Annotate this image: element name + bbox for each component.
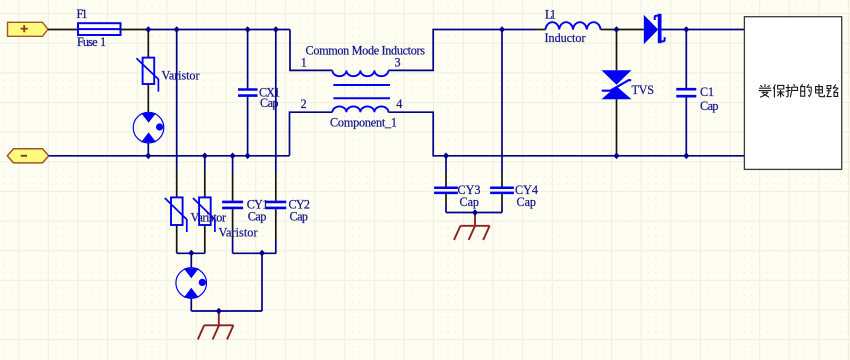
svg-text:Cap: Cap: [700, 99, 719, 113]
wire joining CY1 CY2 bottoms: [233, 252, 277, 254]
wire capacitor CY3 bottom: [445, 194, 447, 206]
wire varistor V1 to gas tube G1: [147, 84, 149, 112]
capacitor CY4: [490, 188, 514, 193]
fuse F1: [78, 23, 121, 35]
svg-text:Inductor: Inductor: [545, 31, 586, 45]
junction CY bottoms riser: [259, 250, 265, 257]
svg-text:4: 4: [396, 97, 402, 111]
earth ground symbol 1: [198, 311, 234, 340]
junction varistor bottoms: [188, 250, 194, 257]
protected circuit chinese label: [759, 85, 838, 98]
TVS D1 bidirectional: [602, 70, 632, 99]
junction rail / varistor V3: [202, 153, 208, 160]
wire junction to gas tube G2: [190, 253, 192, 268]
wire L+ to capacitor C1: [685, 30, 687, 89]
wire joining CY3 CY4 bottoms: [446, 212, 502, 214]
svg-text:Common Mode Inductors: Common Mode Inductors: [306, 44, 426, 58]
wire varistor V3 bottom: [204, 225, 206, 253]
wire L- rail to capacitor CY1: [232, 156, 234, 172]
svg-text:2: 2: [301, 97, 307, 111]
common mode choke windings: [332, 70, 390, 112]
varistor V3 (bottom right): [193, 197, 215, 232]
varistor V2 (bottom left): [165, 197, 187, 232]
junction rail / CX1: [245, 153, 251, 160]
svg-text:3: 3: [395, 56, 401, 70]
wire port- to corner x289.5 (L- rail): [49, 155, 290, 157]
earth rail wire: [191, 310, 262, 312]
wire corner down to CM choke pin 1: [290, 30, 332, 71]
port P- (minus input port): [7, 149, 48, 163]
wire capacitor CY4 bottom: [501, 194, 503, 206]
capacitor CY3: [434, 188, 458, 193]
junction rail / C1: [683, 153, 689, 160]
svg-text:Varistor: Varistor: [219, 226, 258, 240]
wire diode cathode to protected box: [662, 29, 745, 31]
wire L+ top to capacitor CY4 (long drop, crosses bottom rail): [501, 30, 503, 173]
wire CM choke pin 4 to bottom rail: [388, 112, 744, 156]
wire node A to corner x290 (L+ top rail): [148, 29, 290, 31]
wire joining varistor bottoms: [177, 252, 205, 254]
wire corner up to CM choke pin 2: [290, 112, 333, 156]
svg-text:Varistor: Varistor: [191, 211, 227, 225]
svg-text:L1: L1: [545, 7, 556, 21]
junction top wire / CX1: [245, 26, 251, 33]
junction top wire / varistor V1: [145, 26, 151, 33]
junction top wire / CY4 drop: [499, 26, 505, 33]
svg-text:Fuse: Fuse: [77, 35, 98, 49]
diode D2 (schottky): [644, 14, 665, 45]
svg-text:TVS: TVS: [632, 83, 655, 97]
wire L- rail to varistor V3: [204, 156, 206, 170]
junction top wire / C1: [683, 26, 689, 33]
capacitor CY2: [265, 202, 286, 208]
earth ground symbol 2: [454, 213, 490, 241]
svg-text:Varistor: Varistor: [162, 69, 200, 83]
svg-text:Cap: Cap: [260, 96, 279, 110]
wire riser CY bottoms to earth rail: [261, 253, 263, 311]
wire TVS bottom to rail: [616, 99, 618, 156]
wire varistor V2 bottom: [176, 225, 178, 253]
junction earth rail / ground 1: [216, 308, 222, 315]
wire gas tube G2 to earth rail: [190, 298, 192, 311]
svg-text:Cap: Cap: [517, 195, 537, 209]
varistor V1 (top): [136, 58, 158, 92]
svg-text:C1: C1: [700, 85, 714, 99]
wire bottom rail to capacitor CY3: [445, 156, 447, 172]
junction CY3 CY4 / ground 2: [472, 209, 478, 216]
junction rail / CY1: [230, 153, 236, 160]
svg-text:Cap: Cap: [248, 210, 266, 224]
port P+ (plus input port): [8, 22, 49, 36]
inductor L1 coil: [546, 22, 601, 29]
wire capacitor CX1 to L- rail: [247, 96, 249, 156]
gas discharge tube G1: [133, 112, 164, 143]
wire capacitor CY2 bottom: [275, 209, 277, 240]
svg-text:Component_1: Component_1: [330, 116, 397, 130]
wire capacitor CY1 bottom: [232, 209, 234, 240]
junction top wire / TVS: [613, 26, 619, 33]
wire node A down to varistor V1: [147, 30, 149, 58]
junction top wire / varistor V2 drop: [174, 26, 180, 33]
svg-text:1: 1: [100, 35, 106, 49]
protected circuit box: [744, 17, 841, 170]
wire CM choke pin 3 to top rail right: [388, 30, 535, 71]
pin wire left of inductor L1: [535, 29, 546, 31]
capacitor CY1: [222, 202, 243, 208]
junction rail / gas tube G1: [145, 153, 151, 160]
svg-text:F1: F1: [77, 7, 88, 21]
svg-text:Cap: Cap: [290, 210, 309, 224]
junction top wire / CY2 drop: [273, 26, 279, 33]
wire gas tube G1 to L- rail: [147, 143, 149, 156]
capacitor C1: [676, 89, 696, 96]
wire capacitor C1 to rail: [685, 97, 687, 156]
wire L+ drop to varistor V2 (crosses rail): [176, 30, 178, 171]
junction rail / CY3: [443, 153, 449, 160]
wire L+ top to capacitor CY2 (crosses L- rail): [275, 30, 277, 173]
capacitor CX1: [238, 90, 258, 96]
wire fuse F1 to node A: [121, 29, 149, 31]
wire L+ top to capacitor CX1: [247, 30, 249, 90]
svg-text:Cap: Cap: [460, 195, 480, 209]
junction rail / TVS: [613, 153, 619, 160]
svg-text:1: 1: [301, 56, 307, 70]
wire port+ to fuse F1: [48, 29, 78, 31]
wire L+ to TVS top: [616, 30, 618, 71]
gas discharge tube G2: [176, 268, 207, 299]
pin wire right of inductor L1 to diode anode: [601, 29, 644, 31]
